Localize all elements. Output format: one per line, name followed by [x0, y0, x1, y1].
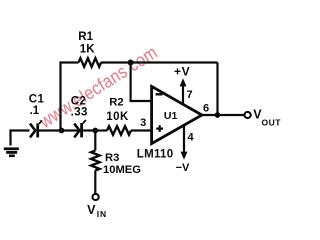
input terminal: [93, 194, 99, 200]
svg-text:R2: R2: [109, 97, 123, 109]
pin 4 -V supply arrow: [181, 125, 188, 160]
ground: [4, 149, 19, 156]
resistor R3: [91, 151, 100, 171]
resistor R1: [79, 58, 102, 67]
svg-text:U1: U1: [164, 110, 178, 122]
wire node A to C2: [62, 129, 79, 131]
svg-text:.1: .1: [30, 105, 40, 117]
wire right feedback drop: [216, 63, 218, 116]
wire left feedback riser: [61, 63, 79, 132]
svg-text:+V: +V: [174, 65, 190, 79]
output terminal: [245, 112, 251, 118]
svg-text:R3: R3: [105, 152, 119, 164]
op-amp U1 triangle: [152, 86, 202, 143]
svg-text:10MEG: 10MEG: [103, 164, 141, 176]
wire R1 to top-right corner: [101, 61, 218, 63]
capacitor C2: [74, 120, 86, 137]
wire ground stub to C1: [11, 131, 30, 146]
minus sign inverting input: [156, 93, 163, 95]
wire inverting input: [131, 63, 152, 102]
svg-text:LM110: LM110: [137, 149, 174, 161]
wire C2 to node B: [83, 129, 96, 131]
svg-text:OUT: OUT: [262, 117, 282, 127]
svg-text:1K: 1K: [80, 44, 95, 56]
svg-text:6: 6: [203, 103, 209, 115]
wire output: [202, 114, 245, 116]
wire node B to R2: [95, 129, 107, 131]
svg-text:−V: −V: [176, 162, 190, 174]
svg-text:4: 4: [188, 131, 195, 143]
svg-text:IN: IN: [97, 209, 107, 219]
feedback junction dot: [128, 60, 134, 66]
svg-text:R1: R1: [78, 31, 93, 43]
wire R3 top: [94, 131, 96, 151]
svg-text:10K: 10K: [106, 111, 129, 123]
svg-text:7: 7: [187, 89, 193, 101]
plus sign non-inverting input: [156, 125, 163, 132]
svg-text:C1: C1: [29, 93, 45, 105]
wire R3 bottom: [94, 171, 96, 194]
svg-text:V: V: [87, 203, 96, 217]
capacitor C1: [30, 120, 42, 137]
wire C1 to node A: [39, 129, 62, 131]
svg-text:.33: .33: [71, 107, 88, 119]
svg-text:3: 3: [140, 117, 146, 129]
resistor R2: [107, 126, 131, 135]
node B junction dot: [92, 128, 98, 134]
node A junction dot: [59, 128, 65, 134]
output junction dot: [215, 112, 221, 118]
wire R2 to op-amp pin 3: [131, 129, 152, 131]
pin 7 +V supply arrow: [180, 78, 187, 104]
svg-text:C2: C2: [71, 95, 87, 107]
